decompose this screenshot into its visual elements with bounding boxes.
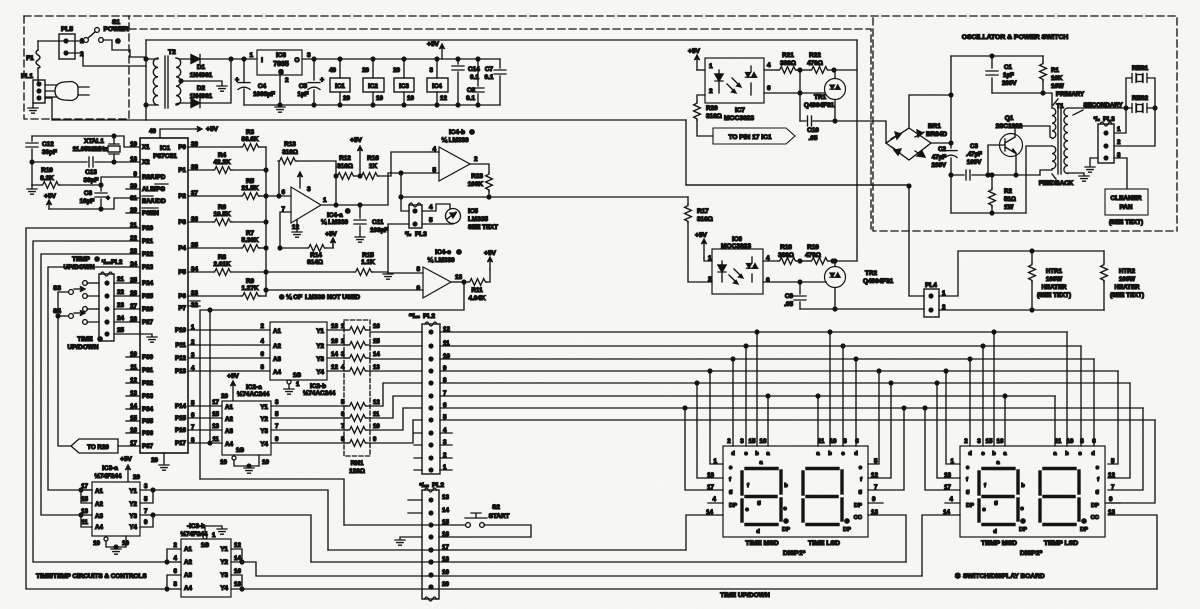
svg-text:19: 19 [220,459,227,466]
wire pin7 line [280,212,291,248]
svg-text:C1: C1 [1004,64,1012,71]
svg-text:18: 18 [234,581,241,588]
svg-text:P31: P31 [142,367,154,374]
outer dashed border [24,16,1177,231]
svg-text:¹/₂₅PL2: ¹/₂₅PL2 [102,259,123,266]
svg-text:15: 15 [212,411,219,418]
wire D1 to IC8 [200,58,257,60]
svg-text:16: 16 [760,438,767,445]
wire P22 bus [41,254,140,515]
buffer IC2-a [222,401,271,455]
resistor R7 [188,247,241,249]
svg-text:21: 21 [117,276,124,283]
svg-text:16: 16 [997,438,1004,445]
svg-text:d: d [1091,451,1095,457]
svg-text:T2: T2 [168,49,176,56]
svg-text:1N4001: 1N4001 [190,72,213,79]
svg-text:A1: A1 [95,488,103,495]
svg-text:TIME/TEMP CIRCUITS & CONTROLS: TIME/TEMP CIRCUITS & CONTROLS [36,573,147,580]
capacitor C2 [945,150,957,152]
svg-text:d: d [968,451,972,457]
DISP1 DP stubs [708,502,883,504]
svg-text:R9: R9 [246,278,255,285]
DISP1 digit segments [746,467,777,470]
IC1 left NC stubs [126,188,140,190]
svg-text:10: 10 [262,459,269,466]
svg-text:R15: R15 [362,252,374,259]
svg-text:1: 1 [212,532,216,539]
svg-text:15: 15 [373,339,380,345]
wire drop c disp1 right [841,344,845,348]
svg-text:UP/DOWN: UP/DOWN [68,344,99,351]
svg-text:5: 5 [144,496,148,503]
svg-text:b: b [828,451,832,457]
svg-text:CC: CC [1091,515,1100,521]
svg-text:TIME UP/DOWN: TIME UP/DOWN [720,592,770,599]
ground below R10 [31,185,33,188]
wire Y34 to disp2 cc line [242,588,1157,590]
resistor R3 [188,146,241,148]
wires P10-P13 to IC2-b [188,329,270,331]
svg-text:CLEANER: CLEANER [1111,195,1142,202]
capacitor C7 [499,59,501,105]
svg-text:PL2: PL2 [423,313,435,320]
wire pin8 line [388,272,423,274]
wire PL5 pin1 to S1 [68,40,84,42]
wire PL3 pin3 [1090,158,1098,166]
svg-text:A4: A4 [273,369,281,376]
resistor R6 [188,221,213,223]
svg-text:TIME MSD: TIME MSD [745,540,778,547]
svg-text:12: 12 [373,400,380,406]
svg-text:⊕: ⊕ [469,129,475,136]
wire disp2 pin12 end [1108,383,1130,478]
svg-text:R5: R5 [246,178,255,185]
capacitor C8 [100,185,102,209]
svg-text:P36: P36 [142,430,154,437]
wire PL3 pin4 [401,197,409,211]
svg-text:IC7: IC7 [735,107,745,114]
svg-text:Y2: Y2 [316,343,324,350]
svg-text:21.5K: 21.5K [241,185,258,192]
svg-text:P30: P30 [142,354,154,361]
DISP1 digit segments [807,467,838,470]
wire IC4-b output / resistor R23 [470,164,489,197]
svg-text:11: 11 [1055,438,1062,445]
svg-text:P20: P20 [142,225,154,232]
svg-text:P25: P25 [142,293,154,300]
+5V arrow C8 [48,201,50,209]
wire bridge top [909,95,951,128]
wire disp1 pin12 riser [889,381,893,385]
svg-text:g: g [1095,489,1099,495]
svg-text:19: 19 [442,569,449,576]
svg-text:P14: P14 [175,403,187,410]
svg-text:P10: P10 [175,327,187,334]
wire drop a disp2 right [1054,396,1056,446]
svg-text:17: 17 [212,399,219,406]
svg-text:SEE TEXT: SEE TEXT [468,224,498,231]
svg-text:A2: A2 [184,559,192,566]
wire comparator output long line [401,196,688,198]
IC3-b output merge Y1Y2 [240,560,244,564]
wire enclosure bottom [686,184,909,186]
svg-text:1: 1 [709,63,713,70]
wire PL3 pin5 [388,224,453,273]
capacitor C14 [457,59,459,105]
svg-text:DP: DP [843,527,851,533]
svg-text:23: 23 [117,302,124,309]
svg-text:20: 20 [133,474,140,481]
svg-text:¼ LM339: ¼ LM339 [442,136,469,144]
RN1 resistor 5 [348,403,367,410]
bus line f segment [440,382,1130,384]
wires PL2 1/25 to IC1 [114,282,140,284]
wire drop c disp2 right [1080,346,1082,446]
svg-text:IC3: IC3 [399,83,409,90]
svg-text:½74F244: ½74F244 [94,472,121,480]
wire PL3 pin1 to resonators [1114,108,1126,133]
wire drop b disp1 left [755,330,759,334]
svg-text:2: 2 [709,88,713,95]
svg-text:8: 8 [174,581,178,588]
bus line b segment [440,331,1067,333]
buffer IC3-a [92,482,140,536]
DISP2 digit segments [983,467,1014,470]
RN1 resistor 8 [348,440,367,447]
svg-text:+5V: +5V [427,41,440,48]
svg-text:7: 7 [275,423,279,430]
svg-text:I: I [261,57,263,64]
svg-text:S3: S3 [53,285,61,292]
op-amp IC4-b [439,147,470,181]
wire bridge to PL4 pin1 [909,186,924,296]
ground PL2 pin25 [114,334,152,336]
wire IC7 pin1 [697,69,705,71]
svg-text:DP: DP [1091,503,1099,509]
svg-text:6: 6 [767,85,771,92]
svg-text:7805: 7805 [273,61,289,68]
wire secondary bottom [176,103,191,104]
svg-text:6: 6 [855,438,859,445]
wire Y12 to disp2 common line [242,562,922,576]
display DISP2 [960,446,1105,537]
svg-text:13: 13 [212,423,219,430]
PL2 lower stubs [414,432,452,434]
svg-text:6: 6 [1092,438,1096,445]
wire bridge right [931,142,951,144]
svg-text:5: 5 [275,411,279,418]
svg-text:SWITCH/DISPLAY BOARD: SWITCH/DISPLAY BOARD [963,573,1045,580]
svg-text:f: f [966,477,968,483]
svg-text:100K: 100K [468,181,484,188]
bus line a segment [440,395,1055,397]
svg-text:⊕ ¼ OF: ⊕ ¼ OF [279,293,302,301]
svg-text:1: 1 [323,197,327,204]
DISP2 digit segments [1044,467,1075,470]
svg-text:⊕: ⊕ [345,208,351,215]
connector PL4 [924,289,939,317]
contact circles S3b S4b [83,294,88,299]
svg-text:3: 3 [275,399,279,406]
wire supply left vertical [145,40,147,120]
svg-text:X2: X2 [142,159,150,166]
resistor R9 [188,295,241,297]
svg-text:Y1: Y1 [220,546,228,553]
svg-text:DP: DP [729,503,737,509]
RN1 resistor 3 [348,355,367,362]
+5V arrow IC6 [703,240,705,258]
AC plug symbol [55,82,78,101]
svg-text:HTR2: HTR2 [1119,268,1136,275]
svg-text:R17: R17 [697,208,709,215]
op-amp IC4-a [291,187,321,223]
svg-text:11: 11 [81,519,88,526]
svg-text:IC5: IC5 [468,208,478,215]
wire RS pin to R10 node [101,177,140,185]
svg-text:1000µF: 1000µF [253,91,275,98]
svg-text:11.0592MHz: 11.0592MHz [73,146,108,153]
svg-text:DP: DP [782,527,790,533]
svg-text:³/₅: ³/₅ [1094,116,1101,123]
svg-text:Y4: Y4 [220,585,228,592]
svg-text:d: d [993,529,997,535]
svg-text:HTR1: HTR1 [1046,268,1063,275]
svg-text:d: d [854,451,858,457]
svg-text:17: 17 [707,484,714,491]
svg-text:6: 6 [281,189,285,196]
svg-text:10W: 10W [1051,83,1064,90]
svg-text:47µF: 47µF [932,154,946,161]
svg-text:g: g [994,500,998,506]
svg-text:A3: A3 [273,356,281,363]
wire S2 to pin16 [439,525,531,537]
diode D1 [191,55,200,64]
svg-text:d: d [731,451,735,457]
wire P17 junction vertical [209,310,211,443]
wire secondary top [176,58,191,59]
svg-text:1µF: 1µF [1003,72,1014,79]
svg-text:R13: R13 [284,141,296,148]
wire PL5 pin2 to rail [68,53,146,66]
wire xtal top [32,136,140,147]
svg-text:30pF: 30pF [84,177,99,184]
wire disp2 pin14 common [922,515,960,576]
svg-text:b: b [755,451,759,457]
svg-text:10µF: 10µF [80,198,95,205]
svg-text:10: 10 [830,438,837,445]
svg-text:1K: 1K [369,163,378,170]
PL2 8/25 stubs 13 14 [408,500,422,513]
svg-text:11: 11 [818,438,825,445]
wire AC neutral rail [146,119,686,121]
svg-text:13: 13 [455,274,463,281]
bus line c segment [440,345,1081,347]
RN1 outputs top to PL2 [370,331,422,333]
svg-text:HEATER: HEATER [1042,284,1068,291]
svg-text:RN1: RN1 [351,460,364,467]
svg-text:10: 10 [407,95,414,102]
svg-text:IC4: IC4 [432,83,442,90]
svg-text:R1: R1 [1051,67,1059,74]
switch S2 START [466,523,471,528]
wire Q1 base [988,145,1005,175]
wires P14-P17 to IC2-a [188,405,222,407]
svg-text:+: + [320,77,324,84]
svg-text:30pF: 30pF [42,149,57,156]
svg-text:12: 12 [292,224,300,231]
svg-text:6: 6 [261,351,265,358]
svg-text:20: 20 [151,457,158,464]
svg-text:¼ LM339: ¼ LM339 [321,218,348,226]
capacitor C10 [800,120,835,122]
svg-text:ALE/PG: ALE/PG [142,186,165,193]
svg-text:P26: P26 [142,306,154,313]
svg-text:IC4-a: IC4-a [327,212,343,219]
svg-text:✱: ✱ [955,572,961,580]
svg-text:G: G [279,69,284,76]
svg-text:120Ω: 120Ω [349,468,365,475]
svg-text:P34: P34 [142,406,154,413]
svg-text:0.1: 0.1 [485,74,494,81]
wire PL3 pin2 to resonators [1114,108,1155,146]
svg-text:14: 14 [373,352,380,358]
svg-text:R2: R2 [1004,188,1012,195]
svg-text:16: 16 [373,324,380,330]
svg-text:R11: R11 [471,287,483,294]
svg-text:+5V: +5V [695,232,708,239]
svg-text:TEMP LSD: TEMP LSD [1044,540,1078,547]
svg-text:+5V: +5V [484,250,497,257]
bypass IC4 block [436,59,438,105]
svg-text:R8: R8 [218,254,227,261]
svg-text:DISP2*: DISP2* [1020,550,1043,557]
RN1 resistor 4 [348,368,367,375]
svg-text:¼ LM339: ¼ LM339 [428,256,455,264]
optocoupler IC7 [705,58,764,103]
svg-text:17: 17 [944,484,951,491]
wire secondary bottom ground [1068,173,1084,175]
svg-text:R3: R3 [246,129,255,136]
wire drop g disp1 pin17 [683,406,687,410]
svg-text:BR1: BR1 [928,123,941,130]
wire pin18 disp1 cc [311,561,906,563]
wire drop b disp2 right [1066,332,1068,446]
svg-text:5: 5 [874,458,878,465]
wire drop b disp1 right [828,330,832,334]
svg-text:200V: 200V [1002,80,1017,87]
svg-text:P16: P16 [175,427,187,434]
svg-text:316Ω: 316Ω [282,149,298,156]
wire center tap to ground [179,79,183,83]
svg-text:P23: P23 [142,264,154,271]
svg-text:DP: DP [854,503,862,509]
svg-text:R14: R14 [310,252,322,259]
svg-text:O: O [295,57,300,64]
svg-text:⊕: ⊕ [456,249,462,256]
wire drop d disp1 left [731,357,735,361]
wire IC8 pin2 ground [279,75,281,105]
wire oscillator top [951,55,1043,57]
+5V arrow IC7 [696,56,698,70]
svg-text:.47µF: .47µF [966,151,982,158]
svg-text:P22: P22 [142,251,154,258]
svg-text:10K: 10K [1051,75,1063,82]
svg-text:NOT USED: NOT USED [327,294,360,301]
svg-text:2.61K: 2.61K [213,261,230,268]
wire AC live rail [146,39,857,41]
transistor Q1 2SC1922 [1000,134,1023,157]
svg-text:TR1: TR1 [814,94,827,101]
wire disp2 pin13 cc [1108,515,1157,589]
wire switch common [58,292,71,446]
wire oscillator bottom [951,212,1026,214]
svg-text:IC3-a: IC3-a [102,465,118,472]
svg-text:R23: R23 [471,173,483,180]
svg-text:OSCILLATOR & POWER SWITCH: OSCILLATOR & POWER SWITCH [962,34,1069,41]
svg-text:0.1: 0.1 [466,95,475,102]
svg-text:C7: C7 [485,66,494,73]
svg-text:R18: R18 [780,244,792,251]
svg-text:A4: A4 [225,441,233,448]
svg-text:10: 10 [376,95,383,102]
svg-text:DISP1*: DISP1* [783,550,806,557]
svg-text:IC8: IC8 [276,52,286,59]
pin19 junction [429,573,433,577]
svg-text:Y3: Y3 [220,572,228,579]
resistor R14 [280,240,333,248]
svg-text:Y4: Y4 [129,524,137,531]
svg-text:40: 40 [329,67,336,74]
svg-text:A2: A2 [95,501,103,508]
flag TO PIN 17 IC1 [713,128,795,144]
svg-text:3: 3 [307,52,311,59]
wire drop d disp2 left [968,357,972,361]
svg-text:+5V: +5V [688,48,701,55]
wire P23 bus [48,267,140,490]
svg-text:8.2K: 8.2K [40,175,54,182]
svg-text:IC2-b: IC2-b [310,383,326,390]
svg-text:22: 22 [117,289,124,296]
svg-text:PRIMARY: PRIMARY [1056,91,1085,98]
wire drop a disp2 left [1003,394,1007,398]
svg-text:2: 2 [285,77,289,84]
svg-text:5: 5 [429,217,433,224]
svg-text:14: 14 [331,351,338,358]
svg-text:5: 5 [1111,458,1115,465]
wire pin9 line [266,289,423,291]
IC1 pin overbars [142,184,168,208]
svg-text:16: 16 [234,568,241,575]
svg-text:C6: C6 [467,87,476,94]
svg-text:RES2: RES2 [1132,95,1149,102]
svg-text:✱: ✱ [98,337,103,343]
resistor R19 [800,260,810,262]
RN1 resistor 7 [348,427,367,434]
svg-text:2: 2 [474,156,478,163]
svg-text:R19: R19 [807,244,819,251]
resistor R12 and R16 line [354,152,439,176]
wire PL4 pin1 to heaters [939,251,1104,296]
svg-text:1: 1 [296,381,300,388]
wire drop e disp1 pin1 [708,369,712,373]
svg-text:DP: DP [1080,527,1088,533]
wire drop c disp1 left [744,344,748,348]
svg-text:S1: S1 [112,19,120,26]
svg-text:TEMP MSD: TEMP MSD [981,540,1017,547]
svg-text:3: 3 [307,186,311,193]
svg-text:1: 1 [1117,126,1121,133]
